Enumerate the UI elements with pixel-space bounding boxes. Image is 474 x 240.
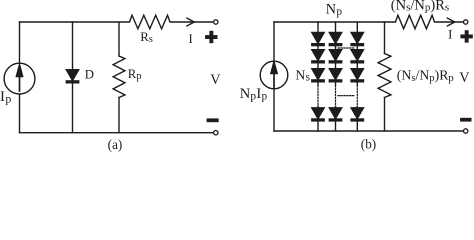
svg-text:V: V [210,72,221,88]
svg-text:(Ns​/Np​)Rs​: (Ns​/Np​)Rs​ [391,0,449,14]
svg-text:I: I [188,32,192,46]
svg-text:(Ns​/Np​)Rp​: (Ns​/Np​)Rp​ [397,68,454,84]
svg-text:I: I [448,27,452,41]
svg-text:V: V [459,70,470,86]
svg-text:D: D [85,67,94,81]
svg-text:Ip​: Ip​ [0,89,12,105]
svg-text:(a): (a) [108,137,123,152]
svg-text:(b): (b) [361,137,376,152]
